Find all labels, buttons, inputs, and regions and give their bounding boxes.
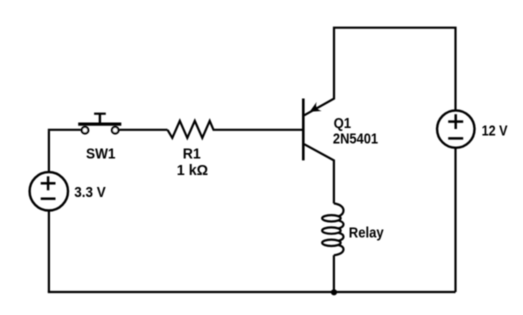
svg-text:Q1: Q1	[334, 116, 352, 132]
svg-text:SW1: SW1	[86, 146, 116, 162]
svg-text:2N5401: 2N5401	[333, 131, 378, 147]
svg-text:R1: R1	[183, 146, 201, 162]
svg-text:Relay: Relay	[349, 225, 384, 241]
svg-text:1 kΩ: 1 kΩ	[177, 163, 208, 179]
svg-text:3.3 V: 3.3 V	[74, 185, 106, 201]
svg-text:12 V: 12 V	[482, 124, 508, 140]
